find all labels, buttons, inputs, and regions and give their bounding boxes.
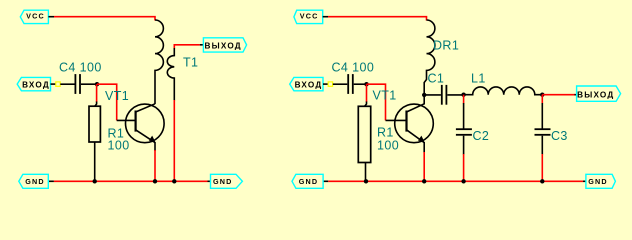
svg-text:VCC: VCC	[300, 11, 319, 20]
svg-text:T1: T1	[183, 56, 198, 70]
svg-text:ВЫХОД: ВЫХОД	[205, 41, 242, 50]
svg-text:100: 100	[108, 138, 130, 152]
svg-text:C2: C2	[473, 129, 490, 143]
svg-text:L1: L1	[471, 72, 486, 86]
svg-text:ВЫХОД: ВЫХОД	[577, 90, 614, 99]
svg-text:C1: C1	[428, 72, 445, 86]
svg-text:R1: R1	[377, 125, 394, 139]
svg-text:GND: GND	[213, 177, 233, 186]
svg-text:C4 100: C4 100	[59, 61, 102, 75]
svg-text:ВХОД: ВХОД	[295, 80, 323, 89]
svg-text:C3: C3	[551, 129, 568, 143]
svg-text:VT1: VT1	[105, 89, 129, 103]
svg-text:GND: GND	[588, 177, 608, 186]
svg-text:100: 100	[377, 138, 399, 152]
svg-text:VCC: VCC	[26, 11, 45, 20]
svg-text:GND: GND	[299, 177, 319, 186]
svg-text:C4 100: C4 100	[332, 61, 375, 75]
svg-text:GND: GND	[25, 177, 45, 186]
svg-text:VT1: VT1	[373, 89, 397, 103]
svg-text:DR1: DR1	[433, 39, 459, 53]
svg-text:ВХОД: ВХОД	[22, 80, 50, 89]
